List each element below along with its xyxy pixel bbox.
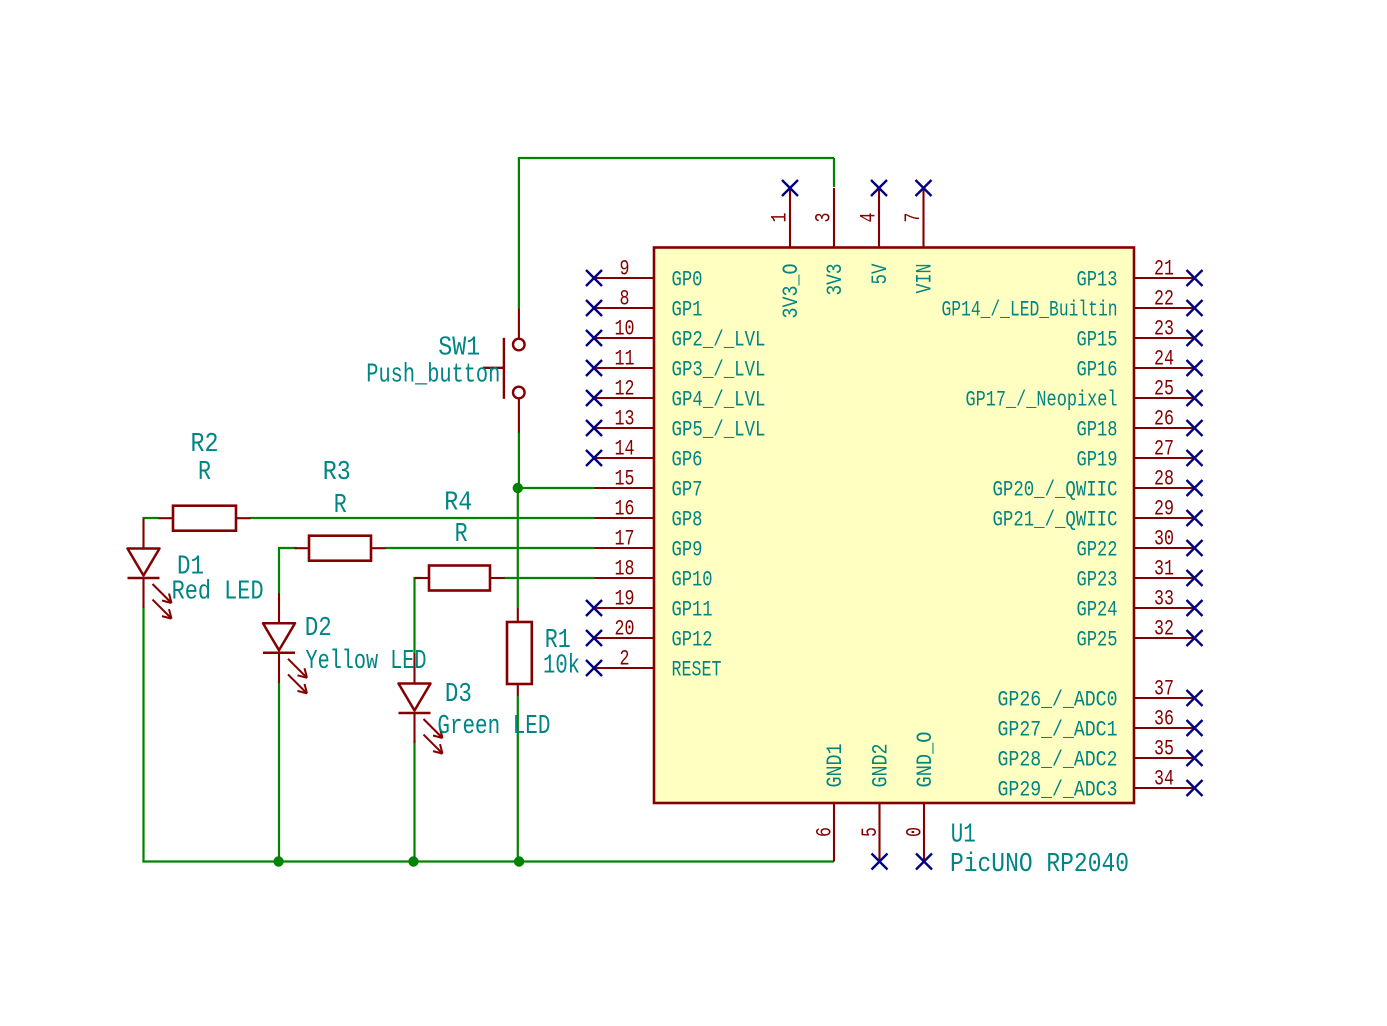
svg-text:GP12: GP12 [672,627,713,653]
U1 pin 12 GP4_/_LVL (left, no-connect) [586,376,766,413]
svg-text:GP23: GP23 [1077,567,1118,593]
U1 pin 24 GP16 (right, no-connect) [1077,346,1203,383]
wire D2 cathode down to GND bus [278,681,280,863]
svg-text:PicUNO RP2040: PicUNO RP2040 [950,850,1129,880]
U1 pin 21 GP13 (right, no-connect) [1077,256,1203,293]
svg-text:33: 33 [1154,586,1174,612]
svg-text:2: 2 [620,646,630,672]
wire R3 to GP9 [385,547,595,549]
svg-text:GP7: GP7 [672,477,703,503]
svg-text:GP19: GP19 [1077,447,1118,473]
U1 pin 4 5V (top, no-connect) [856,180,894,285]
U1 pin 27 GP19 (right, no-connect) [1077,436,1203,473]
wire D3 cathode down to GND bus [413,740,415,863]
svg-text:U1: U1 [951,821,976,851]
resistor R2 body [159,506,251,531]
svg-text:24: 24 [1154,346,1174,372]
U1 pin 30 GP22 (right, no-connect) [1077,526,1203,563]
U1 pin 20 GP12 (left, no-connect) [586,616,713,653]
LED D1 symbol [128,519,172,619]
svg-text:4: 4 [856,213,882,223]
wire R1 bottom to GND bus [517,696,519,863]
junction D2 on GND bus [273,856,283,866]
svg-text:R3: R3 [323,458,351,488]
svg-text:5: 5 [857,827,883,837]
svg-text:GP10: GP10 [672,567,713,593]
svg-text:28: 28 [1154,466,1174,492]
U1 pin 35 GP28_/_ADC2 (right, no-connect) [998,736,1203,773]
svg-text:GP1: GP1 [672,297,703,323]
resistor R4 body [415,566,505,591]
wire GND bus horizontal [142,860,834,862]
U1 pin 34 GP29_/_ADC3 (right, no-connect) [998,766,1203,803]
svg-text:GND1: GND1 [822,744,848,788]
svg-text:21: 21 [1154,256,1174,282]
svg-text:GP9: GP9 [672,537,703,563]
svg-text:31: 31 [1154,556,1174,582]
junction node GP7 / SW1 / R1 [513,483,523,493]
svg-text:GP8: GP8 [672,507,703,533]
svg-text:VIN: VIN [912,264,938,294]
svg-text:GP27_/_ADC1: GP27_/_ADC1 [998,717,1118,743]
wire D1 cathode down to GND bus [142,607,144,863]
U1 pin 33 GP24 (right, no-connect) [1077,586,1203,623]
svg-text:17: 17 [615,526,635,552]
svg-text:0: 0 [902,827,928,837]
U1 pin 9 GP0 (left, no-connect) [586,256,703,293]
U1 pin 28 GP20_/_QWIIC (right, no-connect) [993,466,1203,503]
LED D2 symbol [263,593,307,693]
wire R3 left lead stub [278,547,297,549]
wire R4 to GP10 [504,577,595,579]
svg-text:R: R [455,520,468,550]
U1 pin 11 GP3_/_LVL (left, no-connect) [586,346,766,383]
wire GP7 pin connection [518,487,595,489]
svg-text:GP15: GP15 [1077,327,1118,353]
svg-text:35: 35 [1154,736,1174,762]
svg-text:GND2: GND2 [868,744,894,788]
svg-text:36: 36 [1154,706,1174,732]
svg-text:7: 7 [900,213,926,223]
svg-text:3: 3 [811,213,837,223]
svg-text:6: 6 [812,827,838,837]
U1 pin 19 GP11 (left, no-connect) [586,586,713,623]
wire node GP7 down to R1 top [517,488,519,608]
resistor R1 body (vertical) [507,608,532,696]
svg-text:GP6: GP6 [672,447,703,473]
resistor R3 body [295,536,386,561]
U1 pin 5 GND2 (bottom, no-connect) [857,744,894,870]
svg-text:23: 23 [1154,316,1174,342]
svg-text:GP22: GP22 [1077,537,1118,563]
wire R4 left down to D3 anode [413,577,415,654]
svg-text:GND_O: GND_O [912,732,938,788]
svg-text:GP28_/_ADC2: GP28_/_ADC2 [998,747,1118,773]
svg-text:5V: 5V [867,263,893,284]
U1 pin 31 GP23 (right, no-connect) [1077,556,1203,593]
wire R3 left down to D2 anode [278,547,280,594]
svg-text:GP21_/_QWIIC: GP21_/_QWIIC [993,507,1118,533]
svg-text:GP29_/_ADC3: GP29_/_ADC3 [998,777,1118,803]
svg-text:GP24: GP24 [1077,597,1118,623]
svg-text:19: 19 [615,586,635,612]
svg-text:13: 13 [615,406,635,432]
svg-text:34: 34 [1154,766,1174,792]
svg-text:3V3_O: 3V3_O [778,264,804,319]
U1 pin 32 GP25 (right, no-connect) [1077,616,1203,653]
svg-text:GP25: GP25 [1077,627,1118,653]
svg-text:1: 1 [767,213,793,223]
svg-text:GP11: GP11 [672,597,713,623]
U1 pin 14 GP6 (left, no-connect) [586,436,703,473]
svg-text:GP16: GP16 [1077,357,1118,383]
U1 pin 17 GP9 (left) [595,526,703,563]
U1 pin 26 GP18 (right, no-connect) [1077,406,1203,443]
U1 pin 36 GP27_/_ADC1 (right, no-connect) [998,706,1203,743]
svg-text:D3: D3 [445,680,472,710]
svg-text:GP26_/_ADC0: GP26_/_ADC0 [998,687,1118,713]
LED D3 symbol [399,654,443,754]
wire R4 left lead stub [414,577,422,579]
svg-text:GP13: GP13 [1077,267,1118,293]
svg-text:GP3_/_LVL: GP3_/_LVL [672,357,766,383]
svg-text:D2: D2 [305,614,332,644]
svg-text:9: 9 [620,256,630,282]
svg-text:26: 26 [1154,406,1174,432]
svg-text:10k: 10k [543,652,580,682]
U1 pin 7 VIN (top, no-connect) [900,180,938,294]
svg-text:11: 11 [615,346,635,372]
junction R1 on GND bus [514,856,524,866]
svg-text:R4: R4 [444,489,472,519]
svg-text:12: 12 [615,376,635,402]
svg-text:8: 8 [620,286,630,312]
svg-text:R: R [334,491,347,521]
U1 pin 2 RESET (left, no-connect) [586,646,722,683]
svg-text:GP5_/_LVL: GP5_/_LVL [672,417,766,443]
U1 pin 37 GP26_/_ADC0 (right, no-connect) [998,676,1203,713]
wire R2 left lead stub [143,517,160,519]
svg-text:10: 10 [615,316,635,342]
svg-text:16: 16 [615,496,635,522]
U1 pin 22 GP14_/_LED_Builtin (right, no-connect) [942,286,1203,323]
svg-text:18: 18 [615,556,635,582]
svg-text:GP0: GP0 [672,267,703,293]
wire SW1 bottom to GP7 node [518,432,520,489]
U1 pin 3 3V3 (top) [811,188,849,296]
U1 pin 15 GP7 (left) [595,466,703,503]
wire 3V3 vertical drop to pin 3 [833,158,835,187]
U1 pin 23 GP15 (right, no-connect) [1077,316,1203,353]
U1 pin 13 GP5_/_LVL (left, no-connect) [586,406,766,443]
svg-text:Green LED: Green LED [437,712,550,742]
svg-text:37: 37 [1154,676,1174,702]
svg-text:R2: R2 [191,430,219,460]
U1 pin 10 GP2_/_LVL (left, no-connect) [586,316,766,353]
U1 pin 0 GND_O (bottom, no-connect) [902,732,939,870]
wire R2 to GP8 [250,517,595,519]
svg-text:GP18: GP18 [1077,417,1118,443]
wire SW1 top to 3V3 net [518,157,520,309]
svg-text:Yellow LED: Yellow LED [306,647,427,677]
junction D3 on GND bus [408,856,418,866]
svg-text:GP14_/_LED_Builtin: GP14_/_LED_Builtin [942,297,1118,323]
svg-text:3V3: 3V3 [822,264,848,296]
U1 pin 1 3V3_O (top, no-connect) [767,180,805,319]
svg-text:20: 20 [615,616,635,642]
U1 pin 18 GP10 (left) [595,556,713,593]
svg-text:30: 30 [1154,526,1174,552]
wire 3V3 horizontal top [519,157,834,159]
IC U1 PicUNO RP2040 body [654,248,1134,804]
svg-text:GP4_/_LVL: GP4_/_LVL [672,387,766,413]
svg-text:GP2_/_LVL: GP2_/_LVL [672,327,766,353]
U1 pin 25 GP17_/_Neopixel (right, no-connect) [966,376,1203,413]
U1 pin 8 GP1 (left, no-connect) [586,286,703,323]
svg-text:Push_button: Push_button [366,360,500,390]
svg-text:15: 15 [615,466,635,492]
svg-text:R: R [198,458,211,488]
svg-text:27: 27 [1154,436,1174,462]
svg-text:32: 32 [1154,616,1174,642]
svg-text:SW1: SW1 [438,334,480,364]
U1 pin 16 GP8 (left) [595,496,703,533]
svg-text:14: 14 [615,436,635,462]
svg-text:RESET: RESET [672,657,722,683]
svg-text:29: 29 [1154,496,1174,522]
U1 pin 29 GP21_/_QWIIC (right, no-connect) [993,496,1203,533]
svg-text:Red LED: Red LED [172,578,264,608]
U1 pin 6 GND1 (bottom) [812,744,849,862]
svg-text:25: 25 [1154,376,1174,402]
switch SW1 push button symbol [483,309,525,433]
svg-text:GP20_/_QWIIC: GP20_/_QWIIC [993,477,1118,503]
svg-text:22: 22 [1154,286,1174,312]
svg-text:GP17_/_Neopixel: GP17_/_Neopixel [966,387,1118,413]
